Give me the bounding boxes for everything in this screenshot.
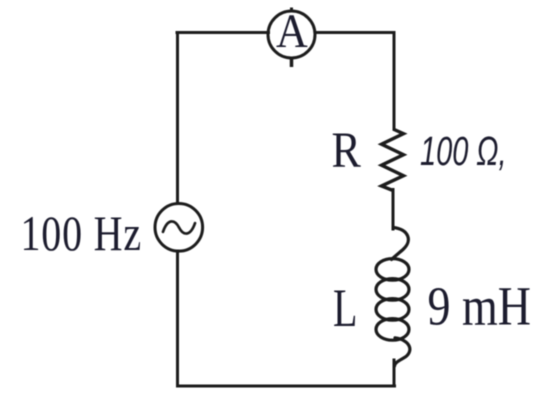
- wire resistor to inductor: [392, 190, 395, 230]
- resistor R1 zigzag: [382, 129, 404, 191]
- svg-text:9 mH: 9 mH: [428, 276, 531, 337]
- wire ammeter to top-right corner: [315, 31, 394, 34]
- inductor L1 entry hook: [392, 228, 409, 260]
- svg-text:R: R: [332, 123, 362, 178]
- svg-text:100 Hz: 100 Hz: [21, 206, 142, 261]
- inductor L1 loop 4: [376, 319, 409, 341]
- inductor L1 loop 1: [376, 259, 409, 281]
- ammeter U1 circle: [268, 11, 315, 58]
- wire left vertical upper: [176, 33, 179, 204]
- ammeter bottom stub: [290, 58, 294, 67]
- svg-text:100 Ω,: 100 Ω,: [420, 129, 507, 174]
- AC source V1 circle: [155, 204, 203, 252]
- wire right vertical upper: [393, 33, 396, 130]
- ammeter top stub: [290, 8, 293, 12]
- inductor L1 loop 2: [376, 279, 409, 301]
- wire top-left horizontal: [177, 31, 269, 34]
- inductor L1 loop 3: [376, 299, 409, 321]
- AC source sine symbol: [163, 221, 195, 233]
- wire left vertical lower: [176, 251, 179, 386]
- svg-text:L: L: [333, 279, 357, 338]
- wire bottom horizontal: [178, 385, 395, 388]
- inductor L1 exit hook: [395, 338, 410, 366]
- svg-text:A: A: [276, 4, 308, 57]
- wire inductor to bottom corner: [393, 360, 396, 386]
